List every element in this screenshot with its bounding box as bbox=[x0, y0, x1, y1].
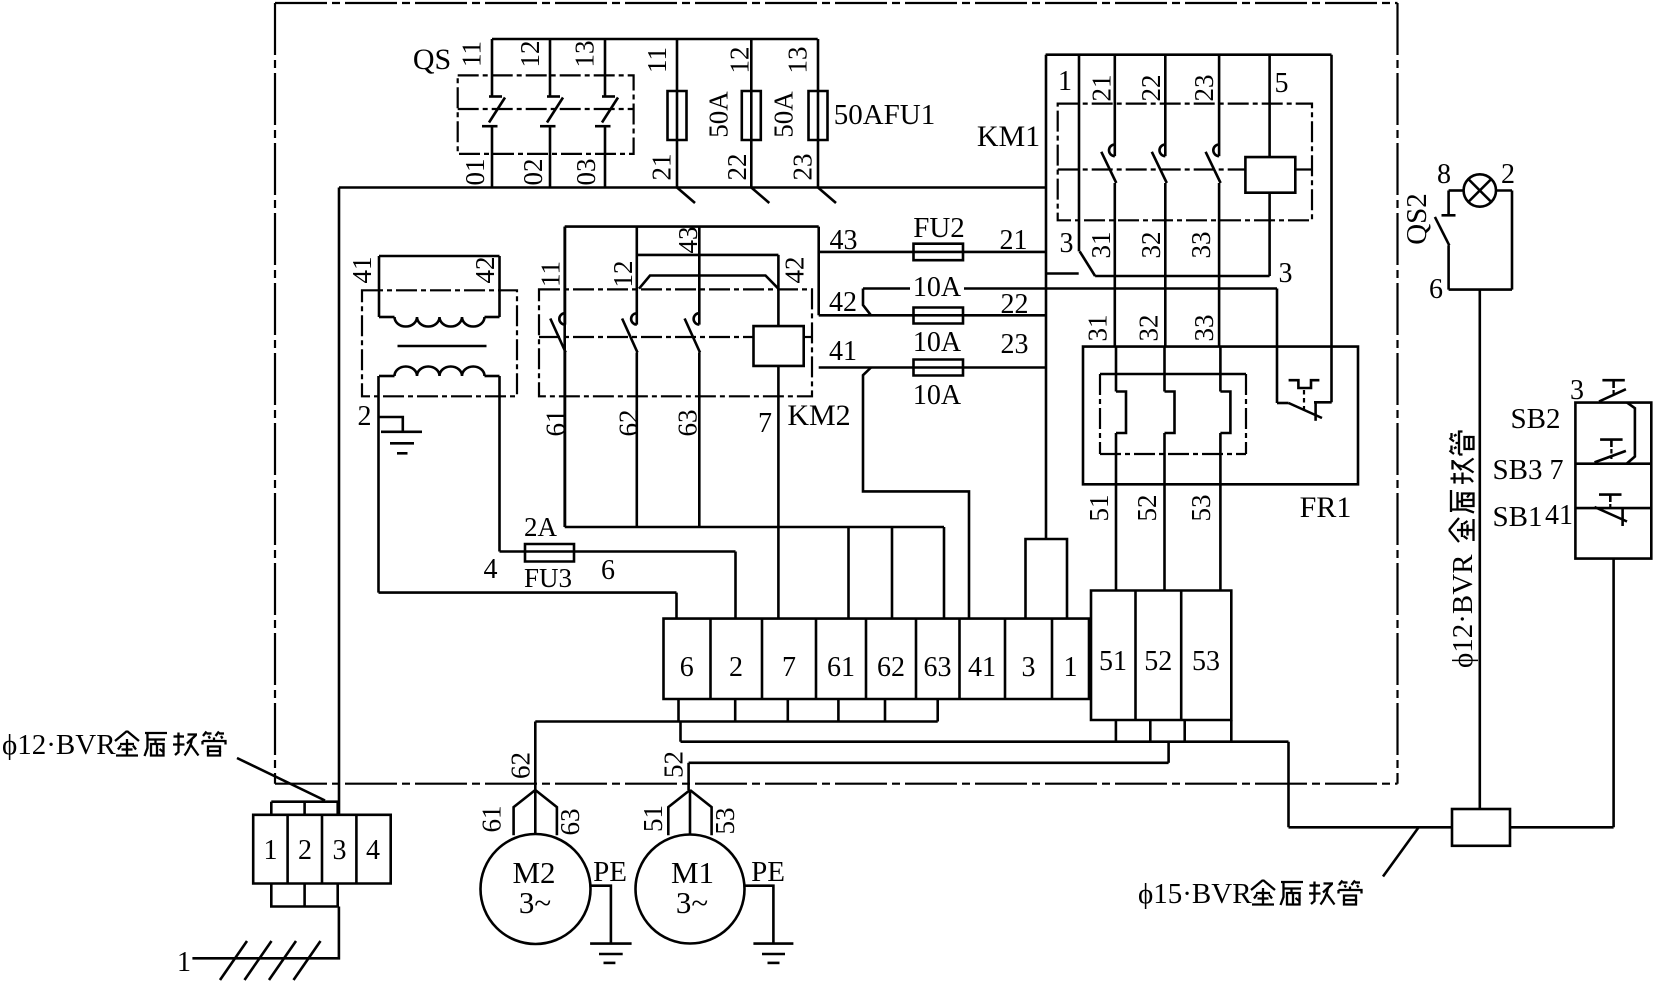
svg-text:42: 42 bbox=[470, 257, 500, 284]
svg-text:1: 1 bbox=[1058, 66, 1072, 97]
svg-text:FU3: FU3 bbox=[524, 563, 572, 593]
svg-text:6: 6 bbox=[680, 652, 694, 683]
svg-text:4: 4 bbox=[366, 835, 380, 866]
svg-text:43: 43 bbox=[673, 227, 703, 254]
svg-text:51: 51 bbox=[1084, 495, 1114, 522]
svg-text:63: 63 bbox=[924, 652, 952, 683]
svg-text:PE: PE bbox=[593, 856, 627, 888]
svg-text:22: 22 bbox=[1001, 289, 1029, 320]
svg-text:3~: 3~ bbox=[519, 885, 551, 920]
svg-text:4: 4 bbox=[484, 554, 498, 585]
svg-text:2: 2 bbox=[298, 835, 312, 866]
svg-text:61: 61 bbox=[541, 410, 571, 437]
svg-text:41: 41 bbox=[1545, 500, 1573, 531]
svg-text:51: 51 bbox=[1099, 646, 1127, 677]
svg-text:10A: 10A bbox=[913, 272, 962, 303]
svg-text:PE: PE bbox=[751, 856, 785, 888]
svg-text:2: 2 bbox=[358, 401, 372, 432]
svg-text:63: 63 bbox=[673, 410, 703, 437]
svg-text:11: 11 bbox=[536, 261, 566, 287]
svg-text:7: 7 bbox=[1550, 455, 1564, 486]
svg-text:ϕ15·BVR: ϕ15·BVR bbox=[1138, 878, 1252, 910]
svg-text:3: 3 bbox=[1022, 652, 1036, 683]
svg-text:42: 42 bbox=[829, 287, 857, 318]
svg-text:03: 03 bbox=[571, 159, 601, 186]
svg-text:KM2: KM2 bbox=[787, 399, 850, 432]
svg-text:12: 12 bbox=[725, 47, 755, 74]
svg-text:50AFU1: 50AFU1 bbox=[834, 99, 936, 131]
svg-text:SB3: SB3 bbox=[1493, 454, 1543, 486]
svg-text:21: 21 bbox=[1087, 75, 1117, 102]
svg-text:12: 12 bbox=[515, 41, 545, 68]
svg-text:23: 23 bbox=[1189, 75, 1219, 102]
svg-text:63: 63 bbox=[555, 809, 585, 836]
svg-text:42: 42 bbox=[780, 257, 810, 284]
svg-text:13: 13 bbox=[783, 47, 813, 74]
svg-text:3: 3 bbox=[1570, 375, 1584, 406]
svg-text:41: 41 bbox=[829, 336, 857, 367]
svg-text:7: 7 bbox=[782, 652, 796, 683]
svg-text:41: 41 bbox=[347, 257, 377, 284]
svg-text:32: 32 bbox=[1136, 232, 1166, 259]
svg-text:23: 23 bbox=[1001, 329, 1029, 360]
svg-text:51: 51 bbox=[638, 805, 668, 832]
svg-text:32: 32 bbox=[1134, 315, 1164, 342]
svg-text:21: 21 bbox=[647, 154, 677, 181]
svg-text:62: 62 bbox=[877, 652, 905, 683]
svg-text:SB1: SB1 bbox=[1493, 501, 1543, 533]
svg-text:61: 61 bbox=[827, 652, 855, 683]
svg-text:FR1: FR1 bbox=[1300, 491, 1352, 524]
svg-text:3~: 3~ bbox=[676, 885, 708, 920]
svg-text:2: 2 bbox=[1501, 159, 1515, 190]
svg-text:QS: QS bbox=[413, 43, 451, 76]
svg-text:21: 21 bbox=[1000, 225, 1028, 256]
svg-text:41: 41 bbox=[968, 652, 996, 683]
svg-text:1: 1 bbox=[1064, 652, 1078, 683]
svg-text:52: 52 bbox=[1132, 495, 1162, 522]
svg-text:3: 3 bbox=[333, 835, 347, 866]
svg-text:KM1: KM1 bbox=[977, 120, 1040, 153]
svg-text:1: 1 bbox=[264, 835, 278, 866]
svg-text:53: 53 bbox=[1192, 646, 1220, 677]
svg-text:3: 3 bbox=[1279, 258, 1293, 289]
svg-text:13: 13 bbox=[570, 41, 600, 68]
svg-text:6: 6 bbox=[1429, 274, 1443, 305]
svg-text:1: 1 bbox=[177, 947, 191, 978]
svg-text:QS2: QS2 bbox=[1401, 193, 1433, 245]
svg-text:22: 22 bbox=[722, 154, 752, 181]
svg-text:53: 53 bbox=[710, 808, 740, 835]
svg-text:52: 52 bbox=[659, 751, 689, 778]
svg-text:FU2: FU2 bbox=[913, 212, 965, 244]
svg-text:11: 11 bbox=[457, 41, 487, 67]
svg-text:5: 5 bbox=[1275, 68, 1289, 99]
svg-text:50A: 50A bbox=[704, 91, 734, 138]
svg-text:53: 53 bbox=[1186, 495, 1216, 522]
svg-text:2: 2 bbox=[729, 652, 743, 683]
svg-text:31: 31 bbox=[1086, 232, 1116, 259]
svg-text:12: 12 bbox=[608, 261, 638, 288]
svg-text:10A: 10A bbox=[913, 327, 962, 358]
svg-text:23: 23 bbox=[788, 154, 818, 181]
svg-text:33: 33 bbox=[1186, 232, 1216, 259]
svg-text:8: 8 bbox=[1437, 159, 1451, 190]
svg-text:52: 52 bbox=[1144, 646, 1172, 677]
svg-text:3: 3 bbox=[1060, 228, 1074, 259]
svg-text:11: 11 bbox=[642, 47, 672, 73]
svg-text:62: 62 bbox=[614, 410, 644, 437]
svg-text:ϕ12·BVR: ϕ12·BVR bbox=[2, 729, 116, 761]
svg-text:01: 01 bbox=[460, 159, 490, 186]
svg-text:6: 6 bbox=[601, 555, 615, 586]
svg-text:7: 7 bbox=[758, 408, 772, 439]
svg-text:10A: 10A bbox=[913, 380, 962, 411]
svg-text:50A: 50A bbox=[769, 91, 799, 138]
svg-text:02: 02 bbox=[518, 159, 548, 186]
svg-text:2A: 2A bbox=[524, 512, 558, 542]
svg-text:SB2: SB2 bbox=[1511, 403, 1561, 435]
svg-text:22: 22 bbox=[1136, 75, 1166, 102]
svg-text:61: 61 bbox=[477, 806, 507, 833]
svg-text:43: 43 bbox=[830, 225, 858, 256]
svg-text:33: 33 bbox=[1189, 315, 1219, 342]
svg-text:ϕ12·BVR: ϕ12·BVR bbox=[1447, 554, 1479, 668]
svg-text:62: 62 bbox=[506, 752, 536, 779]
svg-text:31: 31 bbox=[1083, 315, 1113, 342]
